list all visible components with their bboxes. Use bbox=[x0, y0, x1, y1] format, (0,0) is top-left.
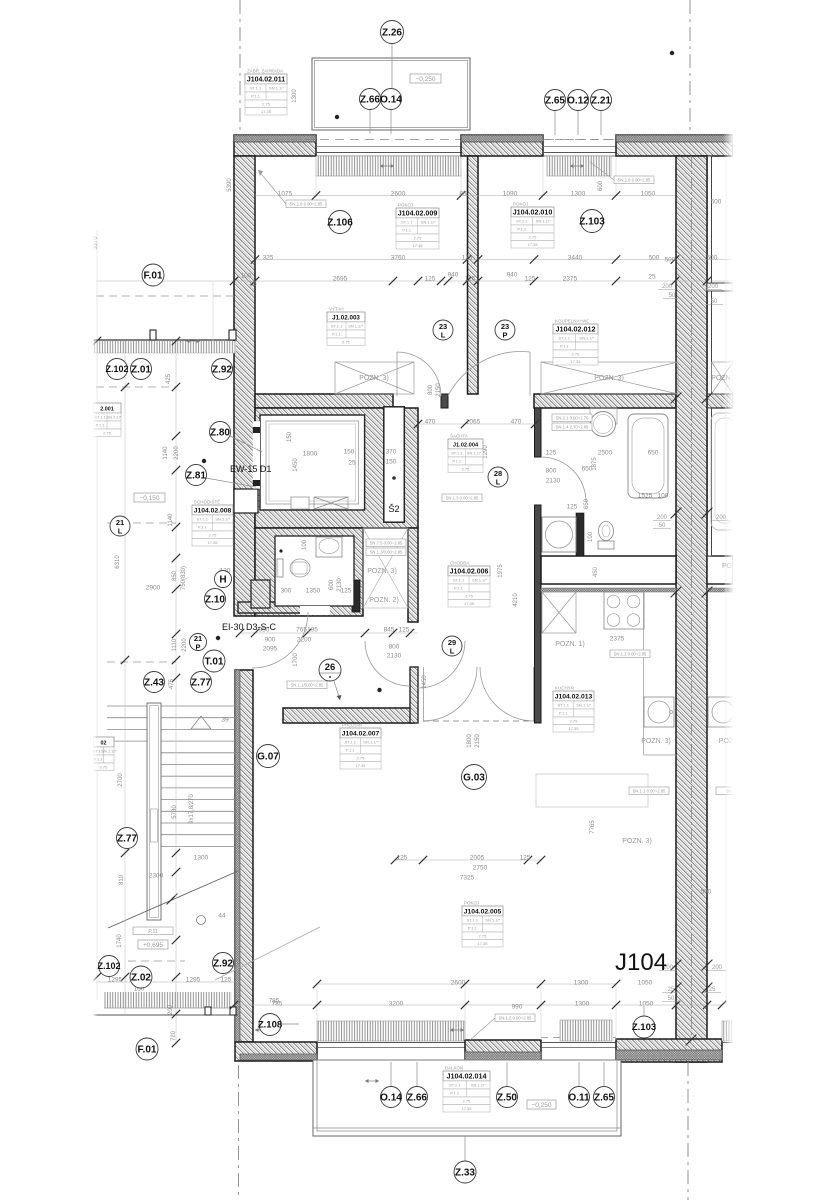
svg-text:26: 26 bbox=[325, 662, 336, 673]
node Z.92 upper bbox=[212, 359, 233, 380]
svg-text:SN.1.1/*: SN.1.1/* bbox=[536, 219, 551, 224]
svg-text:ST.1.1: ST.1.1 bbox=[331, 324, 343, 329]
svg-text:O.14: O.14 bbox=[380, 94, 402, 105]
svg-text:SN.1.2 0.00~2.85: SN.1.2 0.00~2.85 bbox=[614, 651, 647, 656]
facade radiator band upper bbox=[93, 341, 236, 353]
svg-text:2.75: 2.75 bbox=[462, 466, 471, 471]
right margin mask bbox=[733, 0, 832, 1200]
wall SW corner block bbox=[235, 1042, 317, 1061]
dashed line left y387 bbox=[96, 386, 176, 388]
room table J104.02.012 bbox=[553, 319, 598, 366]
core WC toilet bbox=[290, 559, 310, 577]
svg-text:2.75: 2.75 bbox=[572, 351, 581, 356]
svg-text:Š2: Š2 bbox=[388, 504, 399, 514]
svg-text:1450: 1450 bbox=[293, 458, 299, 472]
kitchen hob bbox=[604, 592, 644, 629]
wall interior vertical x468 bbox=[468, 156, 479, 394]
SN level boxes bbox=[286, 200, 326, 208]
node F.01 top bbox=[142, 264, 164, 286]
svg-text:J104.02.006: J104.02.006 bbox=[450, 568, 489, 575]
svg-text:ST.1.1: ST.1.1 bbox=[197, 517, 209, 522]
node G.03 bbox=[462, 765, 487, 790]
svg-text:785: 785 bbox=[269, 998, 280, 1005]
svg-text:17.35: 17.35 bbox=[477, 941, 488, 946]
svg-text:+0,695: +0,695 bbox=[143, 942, 163, 949]
svg-text:SN.1.1/*: SN.1.1/* bbox=[472, 578, 487, 583]
node Z.10 bbox=[205, 589, 226, 610]
bathroom west wall upper bbox=[535, 408, 542, 457]
svg-text:17.35: 17.35 bbox=[355, 763, 366, 768]
dot door26 bbox=[377, 688, 381, 692]
svg-text:17.35: 17.35 bbox=[207, 540, 218, 545]
svg-text:1740: 1740 bbox=[117, 934, 123, 948]
neighbour partition horizontal bbox=[707, 283, 733, 291]
wall top-right segment bbox=[616, 135, 733, 156]
corridor west wall bbox=[408, 528, 418, 622]
svg-text:J104.02.014: J104.02.014 bbox=[447, 1071, 487, 1080]
svg-text:POZN. 3): POZN. 3) bbox=[594, 375, 624, 382]
door 29 arc bbox=[418, 641, 465, 688]
svg-text:ST.1.1: ST.1.1 bbox=[558, 703, 570, 708]
svg-text:200: 200 bbox=[708, 284, 719, 290]
svg-text:P.1.1: P.1.1 bbox=[517, 227, 527, 232]
svg-text:−0,150: −0,150 bbox=[139, 495, 159, 502]
node 21 L bbox=[110, 516, 130, 536]
svg-text:5390: 5390 bbox=[227, 178, 233, 192]
svg-text:P: P bbox=[502, 331, 507, 340]
svg-text:475: 475 bbox=[169, 678, 175, 689]
kitchen wall finish strip neighbour bbox=[707, 588, 733, 592]
svg-text:500: 500 bbox=[665, 257, 676, 264]
svg-text:SN.1.1/*: SN.1.1/* bbox=[348, 324, 363, 329]
node 26 bbox=[319, 659, 341, 681]
svg-text:200: 200 bbox=[662, 284, 673, 290]
svg-text:Z.01: Z.01 bbox=[131, 364, 151, 375]
svg-text:600: 600 bbox=[329, 579, 335, 590]
svg-text:2150: 2150 bbox=[436, 383, 442, 397]
svg-text:44: 44 bbox=[218, 913, 226, 920]
room table J1.02.004 bbox=[448, 433, 483, 473]
svg-text:17.35: 17.35 bbox=[261, 109, 272, 114]
node H bbox=[215, 571, 232, 588]
svg-text:SN.2.1 0.00~2.70: SN.2.1 0.00~2.70 bbox=[556, 415, 589, 420]
svg-text:25: 25 bbox=[648, 274, 656, 281]
svg-text:Z.10: Z.10 bbox=[205, 594, 225, 605]
svg-text:SN.1.1/*: SN.1.1/* bbox=[363, 740, 378, 745]
svg-text:2.75: 2.75 bbox=[570, 718, 579, 723]
node Z.81 bbox=[186, 465, 207, 486]
svg-text:POKOJ: POKOJ bbox=[464, 901, 479, 906]
radiator band under W1 bbox=[316, 156, 461, 176]
node G.07 bbox=[257, 745, 280, 768]
svg-text:P.1.1: P.1.1 bbox=[560, 344, 570, 349]
svg-text:17.35: 17.35 bbox=[412, 243, 423, 248]
svg-text:125: 125 bbox=[462, 255, 473, 262]
svg-text:POZN. 3): POZN. 3) bbox=[622, 838, 652, 845]
bathroom west wall lower / kitchen wall bbox=[535, 505, 542, 723]
svg-text:2130: 2130 bbox=[546, 478, 561, 485]
radiator band above BW1 bbox=[317, 1021, 465, 1041]
svg-text:100: 100 bbox=[658, 493, 669, 500]
dashed line left y296 bbox=[96, 295, 236, 297]
room table J1.02.003 bbox=[327, 306, 365, 346]
dimension ticks bbox=[312, 191, 320, 199]
svg-text:940: 940 bbox=[507, 272, 518, 279]
svg-text:200: 200 bbox=[657, 515, 668, 521]
svg-text:ST.1.1: ST.1.1 bbox=[453, 578, 465, 583]
facade line upper bbox=[93, 339, 236, 341]
svg-text:L: L bbox=[441, 331, 446, 340]
dining table bbox=[536, 774, 648, 807]
bathroom duct band bbox=[541, 556, 676, 584]
svg-text:17.35: 17.35 bbox=[464, 601, 475, 606]
room table J104.02.010 bbox=[511, 202, 554, 249]
room table J104.02.006 bbox=[448, 561, 490, 608]
svg-text:SN.1.1/0.00~2.85: SN.1.1/0.00~2.85 bbox=[291, 682, 324, 687]
svg-text:850: 850 bbox=[172, 570, 178, 581]
svg-text:2600: 2600 bbox=[451, 980, 466, 987]
svg-text:H: H bbox=[219, 574, 226, 585]
svg-text:1295: 1295 bbox=[186, 977, 201, 984]
svg-text:POKOJ: POKOJ bbox=[513, 202, 528, 207]
svg-text:7765: 7765 bbox=[590, 820, 596, 834]
svg-text:650: 650 bbox=[648, 450, 659, 457]
svg-text:P.1.1: P.1.1 bbox=[332, 332, 342, 337]
node Z.66 bottom bbox=[407, 1087, 428, 1108]
node Z.92 lower bbox=[213, 953, 234, 974]
node Z.02 bbox=[130, 966, 152, 988]
node 23 L bbox=[433, 320, 453, 340]
room table J104.02.013 bbox=[553, 685, 594, 733]
svg-text:1525: 1525 bbox=[638, 493, 653, 500]
svg-text:Z.02: Z.02 bbox=[131, 972, 151, 983]
svg-text:P.1.1: P.1.1 bbox=[468, 926, 478, 931]
svg-text:2.75: 2.75 bbox=[100, 764, 109, 769]
svg-text:6310: 6310 bbox=[115, 555, 121, 569]
svg-text:650: 650 bbox=[584, 498, 590, 509]
svg-text:1300: 1300 bbox=[574, 980, 589, 987]
svg-text:BALKÓN: BALKÓN bbox=[445, 1065, 463, 1071]
svg-text:Z.26: Z.26 bbox=[382, 27, 402, 38]
svg-text:J104.02.012: J104.02.012 bbox=[556, 324, 596, 333]
node Z.80 bbox=[210, 422, 231, 443]
svg-text:370: 370 bbox=[386, 449, 397, 456]
svg-text:800: 800 bbox=[389, 644, 400, 651]
radiator band under W2 bbox=[547, 156, 611, 176]
node O.14 top bbox=[380, 89, 402, 110]
room table J104.02.014 bbox=[443, 1065, 490, 1113]
node O.11 bbox=[568, 1087, 590, 1108]
svg-text:1140: 1140 bbox=[163, 446, 169, 460]
svg-text:17.35: 17.35 bbox=[570, 359, 581, 364]
core niche crossed bbox=[363, 528, 408, 608]
svg-text:1110: 1110 bbox=[172, 638, 178, 651]
elevator west door slot bbox=[253, 421, 260, 488]
svg-text:2150: 2150 bbox=[475, 734, 481, 748]
svg-text:P.1.1: P.1.1 bbox=[402, 228, 412, 233]
svg-text:−0,250: −0,250 bbox=[415, 76, 435, 83]
room table J104.02.005 bbox=[462, 901, 503, 948]
dashed line left y523 bbox=[107, 522, 176, 524]
svg-text:ST.1.1: ST.1.1 bbox=[401, 220, 413, 225]
svg-text:1290: 1290 bbox=[483, 445, 489, 459]
door 26 arc bbox=[365, 641, 410, 686]
svg-text:7325: 7325 bbox=[460, 875, 475, 882]
svg-text:O.11: O.11 bbox=[568, 1092, 590, 1103]
core wall stub bbox=[352, 580, 360, 612]
node Z.77 lower bbox=[117, 828, 138, 849]
dashed line left y662 bbox=[107, 661, 176, 663]
svg-text:39: 39 bbox=[221, 717, 229, 724]
wardrobe neighbour bbox=[712, 362, 734, 394]
svg-text:J104.02.011: J104.02.011 bbox=[247, 76, 285, 83]
svg-text:VÝTAH: VÝTAH bbox=[329, 306, 344, 312]
svg-text:G.07: G.07 bbox=[257, 751, 279, 762]
svg-text:3760: 3760 bbox=[391, 255, 406, 262]
node Z.26 bbox=[381, 21, 404, 44]
radiator band above BW2 bbox=[560, 1020, 612, 1041]
svg-text:100: 100 bbox=[302, 539, 308, 550]
svg-text:Z.21: Z.21 bbox=[591, 95, 611, 106]
svg-text:T.01: T.01 bbox=[205, 656, 224, 667]
door 21P arc bbox=[252, 612, 308, 668]
svg-text:2500: 2500 bbox=[598, 450, 613, 457]
svg-text:J1.02.004: J1.02.004 bbox=[453, 442, 479, 448]
svg-text:2.75: 2.75 bbox=[342, 339, 351, 344]
svg-text:1875: 1875 bbox=[592, 457, 598, 471]
room table J104.02.008 bbox=[192, 498, 233, 547]
front fence band bbox=[104, 992, 232, 1008]
svg-text:−0,250: −0,250 bbox=[531, 1102, 551, 1109]
node 23 P bbox=[495, 320, 515, 340]
washbasin round bbox=[590, 408, 617, 424]
svg-text:1050: 1050 bbox=[638, 980, 653, 987]
svg-text:150: 150 bbox=[287, 431, 293, 442]
door bathroom arc bbox=[541, 457, 586, 502]
svg-text:2095: 2095 bbox=[263, 646, 278, 653]
svg-text:470: 470 bbox=[511, 419, 522, 426]
svg-text:POZN. 1): POZN. 1) bbox=[555, 641, 585, 648]
wall y394 door post bbox=[441, 394, 448, 408]
facade line lower bbox=[93, 1014, 238, 1016]
svg-text:50: 50 bbox=[669, 293, 676, 299]
svg-text:900: 900 bbox=[265, 637, 276, 644]
svg-text:G.03: G.03 bbox=[463, 772, 485, 783]
svg-text:810: 810 bbox=[119, 874, 125, 885]
svg-text:J104.02.010: J104.02.010 bbox=[513, 208, 553, 216]
svg-text:2700: 2700 bbox=[118, 773, 124, 787]
svg-text:85: 85 bbox=[459, 191, 467, 198]
svg-text:J104.02.005: J104.02.005 bbox=[464, 908, 502, 915]
svg-text:1700: 1700 bbox=[293, 653, 299, 667]
section line lower bbox=[215, 927, 320, 980]
svg-text:125: 125 bbox=[425, 276, 436, 283]
svg-text:1050: 1050 bbox=[641, 191, 656, 198]
svg-text:SN.1.3/0.00~2.85: SN.1.3/0.00~2.85 bbox=[370, 549, 403, 554]
level box +0.695 bbox=[138, 940, 168, 949]
svg-text:POZN. 3): POZN. 3) bbox=[359, 375, 389, 382]
shaft S2 bbox=[384, 407, 405, 522]
node Z.102 upper bbox=[105, 359, 128, 380]
svg-text:1090: 1090 bbox=[503, 191, 518, 198]
svg-text:Z.66: Z.66 bbox=[407, 1092, 427, 1103]
svg-text:ST.1.1: ST.1.1 bbox=[449, 1083, 461, 1088]
svg-text:SN.1.1 0.00~2.85: SN.1.1 0.00~2.85 bbox=[633, 788, 666, 793]
level box -0.150 bbox=[134, 493, 165, 502]
svg-text:450: 450 bbox=[593, 566, 599, 577]
svg-text:Z.103: Z.103 bbox=[632, 1022, 656, 1033]
svg-text:P.1.1: P.1.1 bbox=[559, 711, 569, 716]
wall left lower bbox=[235, 670, 253, 1042]
wall y394 neighbour segment bbox=[707, 394, 733, 408]
svg-text:PŘEDSÍŇ: PŘEDSÍŇ bbox=[342, 721, 362, 728]
svg-text:KOUPELNA+WC: KOUPELNA+WC bbox=[555, 319, 590, 324]
node Z.50 bbox=[497, 1087, 518, 1108]
svg-text:125: 125 bbox=[567, 504, 578, 511]
svg-text:800: 800 bbox=[546, 468, 557, 475]
svg-text:L: L bbox=[496, 478, 501, 487]
door 23P arc bbox=[448, 351, 530, 396]
svg-text:EI-30 D3-S-C: EI-30 D3-S-C bbox=[222, 622, 277, 632]
svg-text:940: 940 bbox=[448, 272, 459, 279]
svg-text:Z.65: Z.65 bbox=[594, 1092, 614, 1103]
svg-text:SN.1.1/*: SN.1.1/* bbox=[579, 336, 594, 341]
svg-text:2.75: 2.75 bbox=[479, 933, 488, 938]
svg-text:SN.7.5 0.00~2.85: SN.7.5 0.00~2.85 bbox=[370, 540, 403, 545]
svg-text:1300: 1300 bbox=[575, 1001, 590, 1008]
svg-text:200: 200 bbox=[168, 1004, 174, 1015]
svg-text:Z.80: Z.80 bbox=[210, 427, 230, 438]
svg-text:L: L bbox=[450, 647, 455, 656]
bottom window BW1 bbox=[317, 1042, 465, 1044]
staircase rail bbox=[147, 703, 161, 920]
svg-text:Z.81: Z.81 bbox=[186, 470, 206, 481]
svg-text:2375: 2375 bbox=[563, 276, 578, 283]
wardrobe Z106 bbox=[335, 362, 414, 394]
site line bottom right bbox=[687, 1062, 689, 1200]
svg-text:500: 500 bbox=[707, 255, 718, 262]
core WC door gap bbox=[300, 606, 330, 615]
entrance door stub wall bbox=[410, 667, 418, 723]
elevator car bbox=[260, 415, 365, 510]
kitchen sink bbox=[644, 697, 674, 727]
svg-text:17.35: 17.35 bbox=[568, 726, 579, 731]
extension lines bbox=[315, 158, 317, 196]
svg-text:150: 150 bbox=[386, 459, 397, 466]
bathroom duct band neighbour bbox=[707, 556, 733, 584]
svg-text:F.01: F.01 bbox=[138, 1044, 157, 1055]
room table 2.001 bbox=[93, 403, 122, 437]
svg-text:J1.02.003: J1.02.003 bbox=[332, 314, 360, 321]
svg-text:SN.1.1/*: SN.1.1/* bbox=[107, 415, 122, 420]
wardrobe Z103 bbox=[541, 362, 678, 394]
node Z.103 upper bbox=[579, 210, 605, 233]
site line bottom left bbox=[238, 1065, 240, 1200]
svg-text:SN.1.1/*: SN.1.1/* bbox=[101, 749, 116, 754]
svg-text:300: 300 bbox=[281, 588, 292, 595]
core hatch lower bbox=[255, 528, 363, 616]
svg-text:SN.1.6 0.00~2.85: SN.1.6 0.00~2.85 bbox=[290, 201, 323, 206]
svg-text:ST.1.1: ST.1.1 bbox=[559, 336, 571, 341]
svg-text:J104.02.013: J104.02.013 bbox=[555, 693, 593, 700]
svg-text:5780: 5780 bbox=[172, 805, 178, 819]
svg-text:SN.1.1/*: SN.1.1/* bbox=[421, 220, 436, 225]
svg-text:KUCHYŇ: KUCHYŇ bbox=[555, 685, 574, 691]
wall top-mid pier bbox=[461, 135, 543, 156]
svg-text:125: 125 bbox=[397, 855, 408, 862]
svg-text:Z.106: Z.106 bbox=[327, 217, 353, 228]
svg-text:720: 720 bbox=[171, 1030, 177, 1041]
node Z.103 lower bbox=[632, 1016, 656, 1038]
svg-text:SN.1.6 0.00~2.85: SN.1.6 0.00~2.85 bbox=[499, 1015, 532, 1020]
svg-text:P.11: P.11 bbox=[148, 929, 157, 935]
svg-text:2.001: 2.001 bbox=[100, 406, 114, 412]
svg-text:Z.77: Z.77 bbox=[191, 677, 211, 688]
svg-text:25: 25 bbox=[709, 987, 716, 993]
leader lines bbox=[391, 44, 393, 105]
svg-text:02: 02 bbox=[101, 740, 107, 746]
node Z.108 bbox=[258, 1014, 282, 1036]
svg-text:1450: 1450 bbox=[422, 675, 428, 689]
svg-text:SN.1.1/*: SN.1.1/* bbox=[471, 1083, 486, 1088]
svg-text:Z.66: Z.66 bbox=[360, 94, 380, 105]
svg-text:P.1.1: P.1.1 bbox=[251, 94, 261, 99]
svg-text:2.75: 2.75 bbox=[465, 593, 474, 598]
svg-text:2130: 2130 bbox=[337, 578, 343, 592]
svg-text:F.01: F.01 bbox=[144, 270, 163, 281]
level box -0.250 top bbox=[410, 74, 441, 83]
node Z.43 bbox=[144, 672, 165, 693]
svg-text:2200: 2200 bbox=[297, 637, 312, 644]
svg-text:2.75: 2.75 bbox=[103, 430, 112, 435]
node Z.21 top bbox=[591, 90, 612, 111]
svg-text:O.14: O.14 bbox=[380, 1092, 402, 1103]
svg-text:125: 125 bbox=[520, 855, 531, 862]
washing machine bbox=[542, 517, 576, 552]
SN leader arrows bbox=[258, 170, 286, 204]
svg-text:50: 50 bbox=[659, 523, 666, 529]
node T.01 bbox=[203, 650, 225, 672]
node Z.106 bbox=[327, 211, 353, 234]
node Z.66 top bbox=[360, 89, 381, 110]
dot Z80 bbox=[202, 459, 206, 463]
corridor G07 south wall bbox=[283, 708, 414, 723]
svg-text:4210: 4210 bbox=[513, 593, 519, 607]
site line top left bbox=[239, 0, 241, 133]
node 21 P bbox=[190, 634, 207, 652]
svg-text:1295: 1295 bbox=[108, 977, 123, 984]
stair direction triangle bbox=[191, 716, 211, 729]
bottom right block bbox=[616, 1039, 722, 1062]
svg-text:2900: 2900 bbox=[146, 585, 161, 592]
svg-text:J104.02.007: J104.02.007 bbox=[342, 730, 380, 737]
room table J104.02.011 bbox=[245, 67, 287, 116]
svg-text:2.75: 2.75 bbox=[209, 532, 218, 537]
svg-text:9x17,8/270: 9x17,8/270 bbox=[189, 793, 195, 823]
svg-text:2300: 2300 bbox=[149, 873, 164, 880]
svg-text:P: P bbox=[195, 643, 200, 652]
svg-text:1975: 1975 bbox=[498, 564, 504, 578]
svg-text:2600: 2600 bbox=[391, 191, 406, 198]
svg-text:SN.1.1/*: SN.1.1/* bbox=[467, 451, 482, 456]
svg-text:Z.33: Z.33 bbox=[455, 1167, 475, 1178]
svg-text:800: 800 bbox=[428, 384, 434, 395]
svg-text:SCHODIŠTĚ: SCHODIŠTĚ bbox=[194, 498, 220, 505]
node Z.77 upper bbox=[191, 672, 212, 693]
svg-text:2200: 2200 bbox=[174, 446, 180, 460]
svg-text:50: 50 bbox=[711, 299, 718, 305]
svg-text:2.75: 2.75 bbox=[262, 101, 271, 106]
